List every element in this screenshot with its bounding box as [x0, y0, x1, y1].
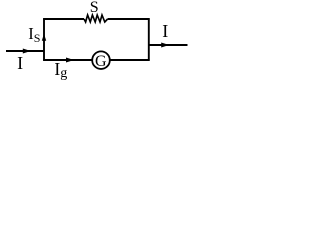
galvanometer G circle — [92, 51, 110, 69]
arrow Is upward on left vertical — [42, 34, 46, 41]
svg-text:Ig: Ig — [54, 59, 67, 81]
arrow input current I — [23, 49, 31, 54]
arrow Ig on bottom rail — [66, 58, 74, 63]
wire left vertical branch — [43, 18, 45, 61]
wire bottom rail right of galvanometer — [110, 59, 149, 61]
resistor S zigzag — [84, 15, 108, 22]
wire top rail left of resistor — [43, 18, 84, 20]
wire top rail right of resistor — [108, 18, 150, 20]
arrow output current I — [161, 43, 169, 48]
svg-text:S: S — [90, 0, 99, 16]
wire output right horizontal — [149, 44, 188, 46]
wire input left horizontal — [6, 50, 44, 52]
wire right vertical — [148, 18, 150, 61]
svg-text:I: I — [162, 21, 168, 41]
svg-text:I: I — [17, 53, 23, 73]
svg-text:IS: IS — [28, 24, 40, 45]
svg-text:G: G — [95, 53, 107, 70]
wire bottom rail left of galvanometer — [43, 59, 91, 61]
